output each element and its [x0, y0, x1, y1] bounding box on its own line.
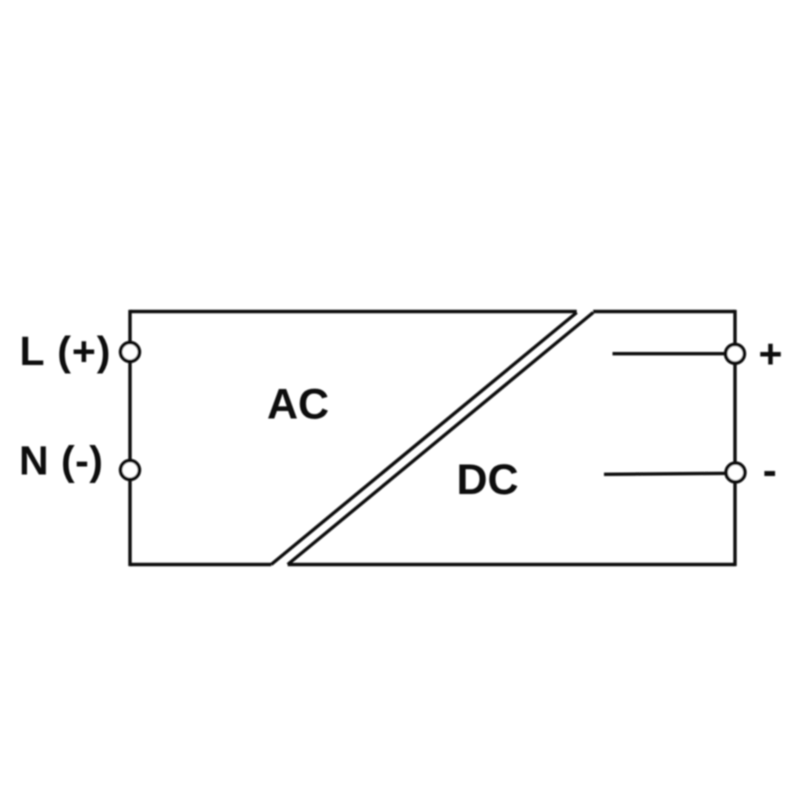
svg-text:-: - [763, 447, 777, 494]
svg-text:L (+): L (+) [20, 328, 112, 374]
svg-text:N (-): N (-) [19, 438, 103, 484]
svg-text:DC: DC [457, 456, 519, 504]
svg-text:AC: AC [267, 381, 329, 429]
svg-text:+: + [759, 331, 783, 377]
